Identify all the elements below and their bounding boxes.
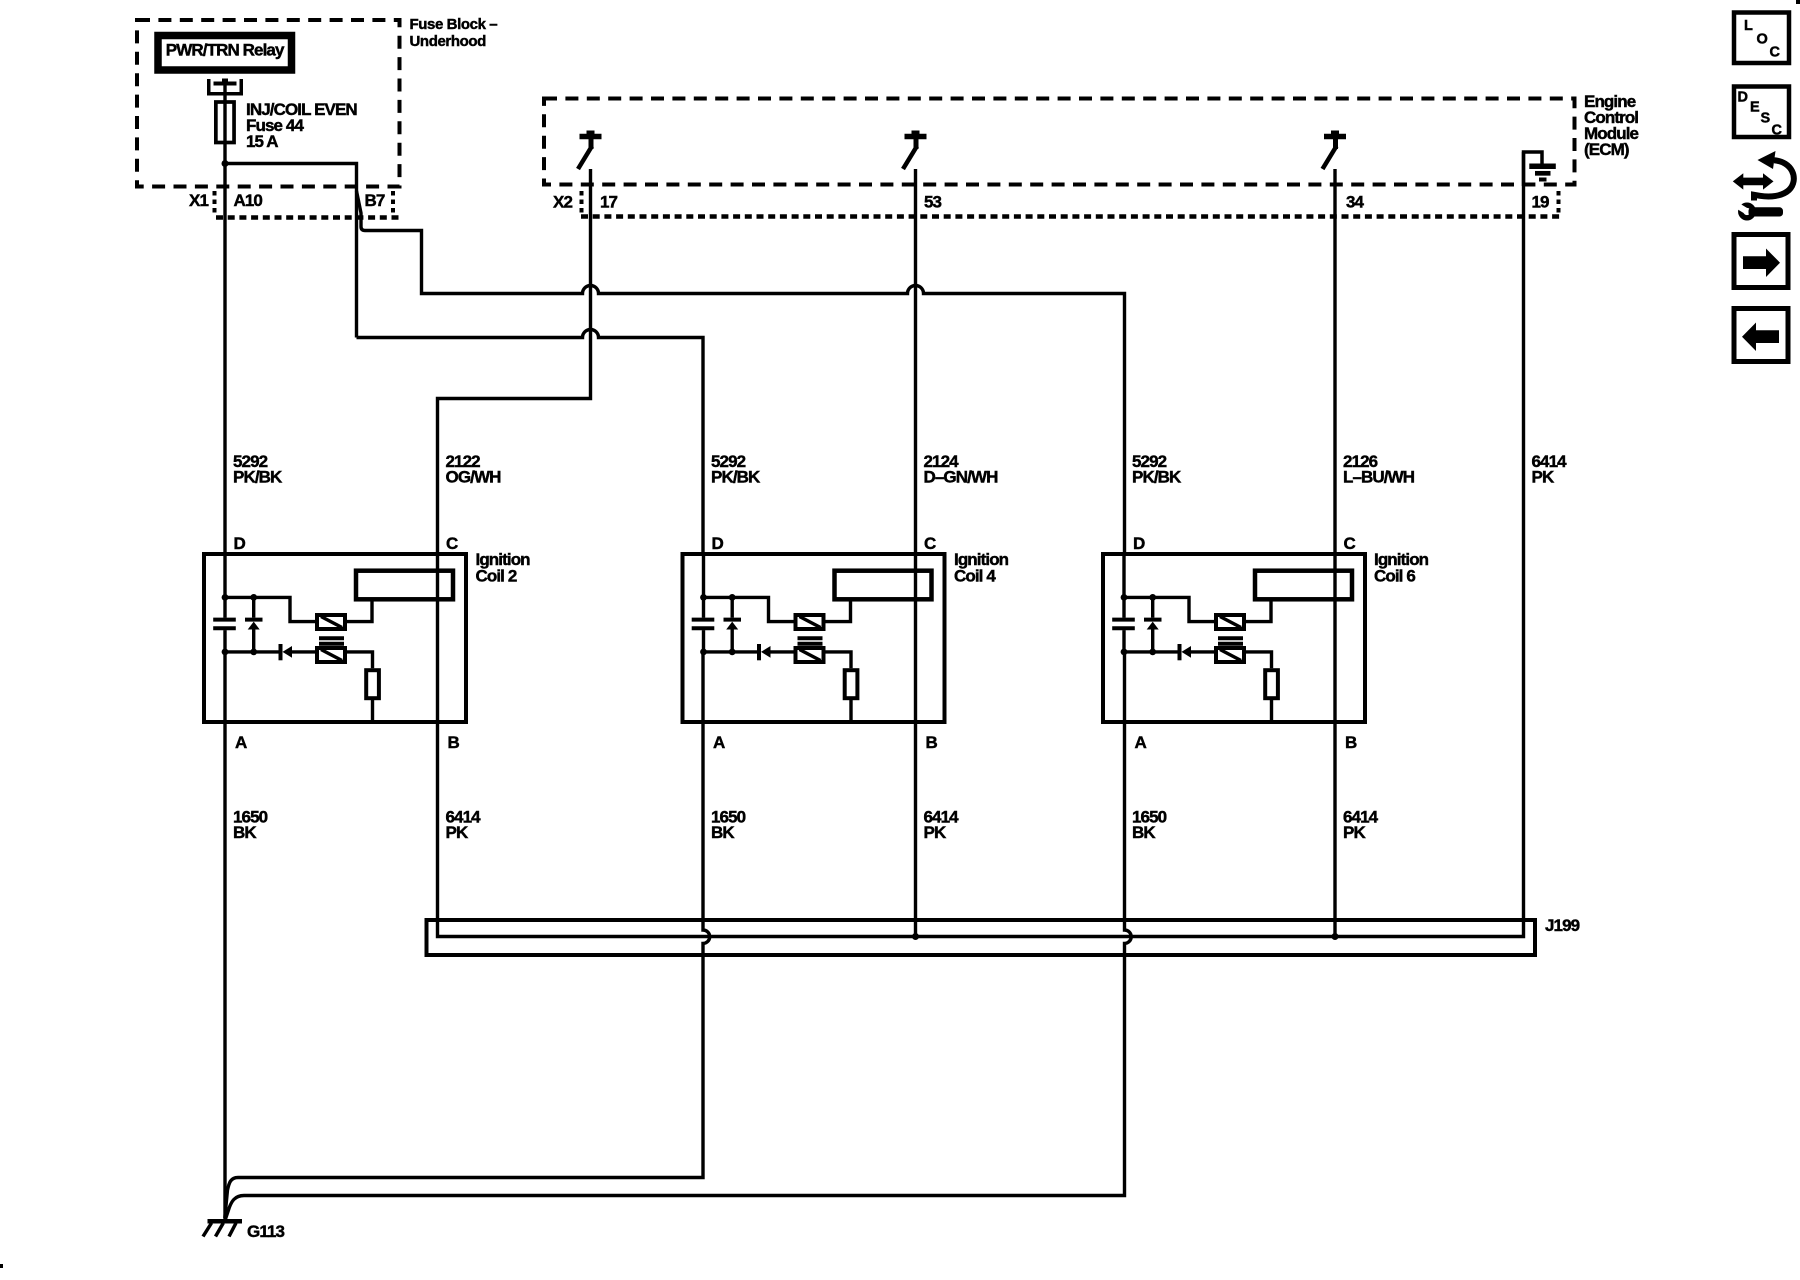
svg-text:L–BU/WH: L–BU/WH xyxy=(1343,468,1415,487)
svg-text:A10: A10 xyxy=(234,191,263,210)
svg-text:D: D xyxy=(1738,90,1748,106)
svg-text:Coil 2: Coil 2 xyxy=(476,567,517,586)
svg-text:BK: BK xyxy=(233,823,257,842)
svg-text:BK: BK xyxy=(1132,823,1156,842)
svg-text:PK/BK: PK/BK xyxy=(233,468,283,487)
svg-text:G113: G113 xyxy=(247,1222,284,1241)
svg-text:D: D xyxy=(1133,534,1145,553)
svg-text:PK: PK xyxy=(1343,823,1366,842)
svg-text:S: S xyxy=(1761,111,1771,127)
svg-text:B7: B7 xyxy=(365,191,385,210)
svg-text:Coil 6: Coil 6 xyxy=(1374,567,1415,586)
svg-text:D–GN/WH: D–GN/WH xyxy=(924,468,999,487)
svg-text:PK: PK xyxy=(1532,468,1555,487)
svg-text:C: C xyxy=(446,534,458,553)
svg-text:OG/WH: OG/WH xyxy=(446,468,502,487)
svg-text:B: B xyxy=(448,733,460,752)
svg-text:Fuse Block –: Fuse Block – xyxy=(410,16,498,33)
svg-text:A: A xyxy=(713,733,725,752)
svg-text:D: D xyxy=(712,534,724,553)
svg-text:A: A xyxy=(1135,733,1147,752)
svg-text:BK: BK xyxy=(711,823,735,842)
svg-text:J199: J199 xyxy=(1545,916,1580,935)
svg-text:X1: X1 xyxy=(189,191,208,210)
svg-text:PK/BK: PK/BK xyxy=(711,468,761,487)
svg-text:19: 19 xyxy=(1532,193,1550,212)
svg-text:C: C xyxy=(1772,123,1783,139)
svg-text:15 A: 15 A xyxy=(246,132,278,151)
svg-text:X2: X2 xyxy=(553,193,572,212)
svg-text:PWR/TRN Relay: PWR/TRN Relay xyxy=(166,41,285,60)
svg-text:C: C xyxy=(1770,45,1781,61)
svg-text:L: L xyxy=(1744,18,1753,34)
svg-text:17: 17 xyxy=(600,193,618,212)
svg-text:C: C xyxy=(1344,534,1356,553)
svg-text:(ECM): (ECM) xyxy=(1584,140,1629,159)
svg-text:B: B xyxy=(926,733,938,752)
svg-text:Underhood: Underhood xyxy=(410,33,487,50)
svg-text:PK: PK xyxy=(924,823,947,842)
svg-text:A: A xyxy=(235,733,247,752)
svg-text:Coil 4: Coil 4 xyxy=(954,567,996,586)
svg-text:53: 53 xyxy=(924,193,942,212)
svg-text:D: D xyxy=(234,534,246,553)
svg-text:O: O xyxy=(1757,32,1768,48)
svg-text:E: E xyxy=(1750,100,1760,116)
svg-text:B: B xyxy=(1345,733,1357,752)
svg-text:C: C xyxy=(924,534,936,553)
svg-text:PK/BK: PK/BK xyxy=(1132,468,1182,487)
svg-text:PK: PK xyxy=(446,823,469,842)
svg-text:34: 34 xyxy=(1346,193,1365,212)
